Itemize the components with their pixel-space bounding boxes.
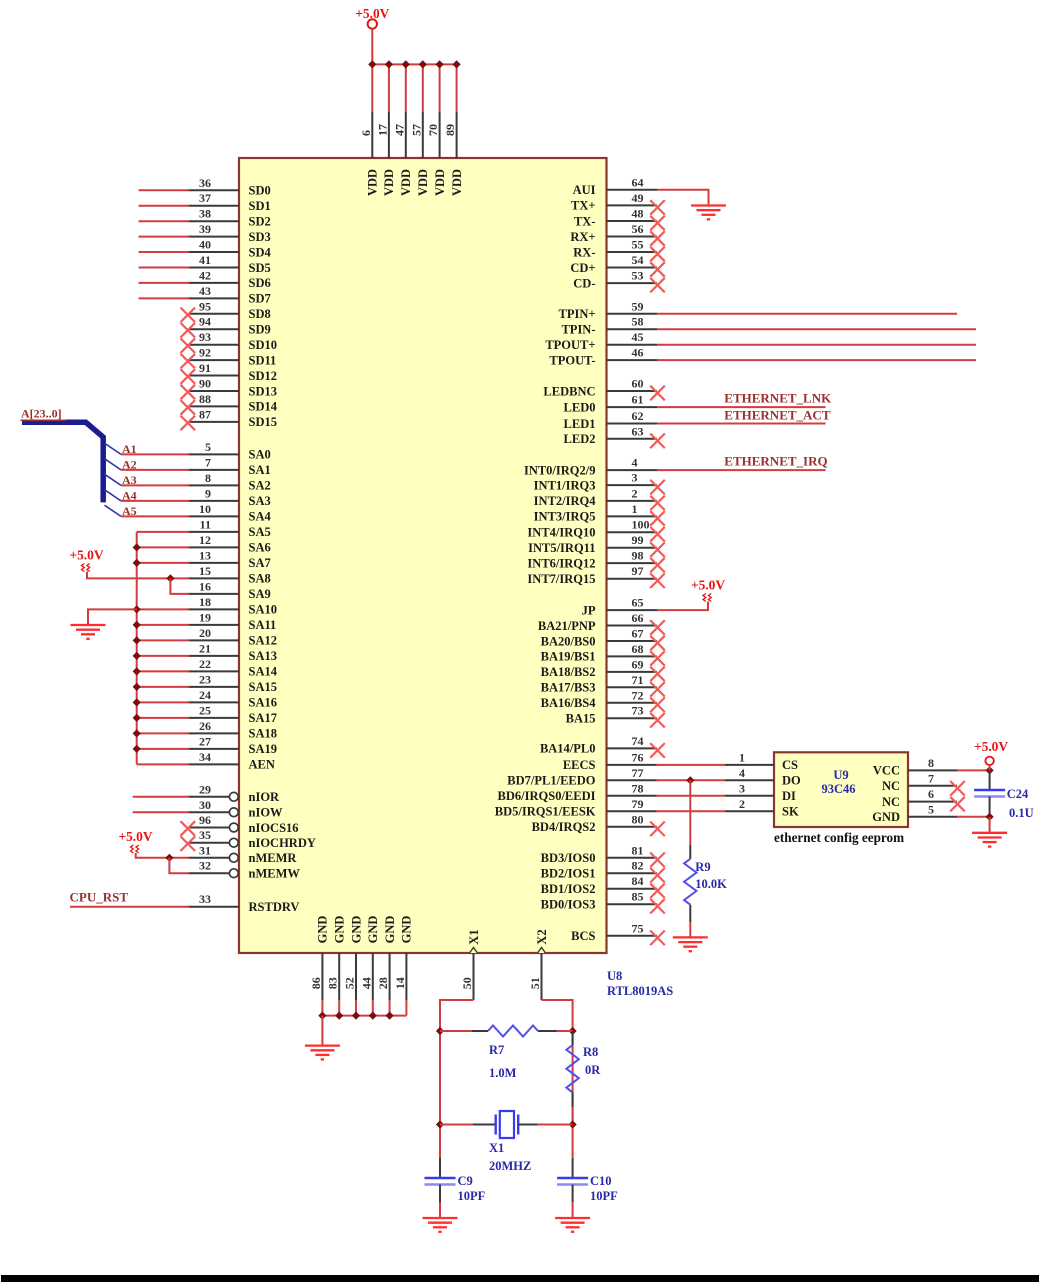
- wire A3 to SA2: [121, 484, 189, 486]
- svg-text:nIOR: nIOR: [249, 790, 281, 804]
- svg-text:BD4/IRQS2: BD4/IRQS2: [532, 820, 596, 834]
- svg-text:TPIN-: TPIN-: [561, 323, 595, 337]
- svg-text:GND: GND: [366, 916, 380, 944]
- pin 59 TPIN+ (right): [607, 313, 658, 315]
- svg-text:BD7/PL1/EEDO: BD7/PL1/EEDO: [507, 774, 595, 788]
- op-amp U8 RTL8019AS main IC body: [239, 158, 607, 953]
- svg-text:17: 17: [375, 124, 389, 136]
- svg-text:BA19/BS1: BA19/BS1: [541, 650, 596, 664]
- svg-text:CD-: CD-: [573, 276, 595, 290]
- pin 95 SD8 (left): [188, 313, 239, 315]
- pin 57 VDD (top): [422, 64, 424, 112]
- svg-text:88: 88: [199, 392, 211, 406]
- svg-text:SA16: SA16: [249, 696, 277, 710]
- U9 pin 2 SK: [725, 810, 774, 812]
- wire SA chain branch: [137, 655, 190, 657]
- svg-text:SA19: SA19: [249, 742, 277, 756]
- junction R9 tap: [686, 776, 694, 784]
- svg-text:89: 89: [443, 124, 457, 136]
- wire SA10 to ground: [88, 609, 137, 625]
- junction: [133, 667, 141, 675]
- pin 58 TPIN- (right): [607, 328, 658, 330]
- wire A4 to SA3: [121, 500, 189, 502]
- wire GND bus to ground: [321, 1016, 323, 1046]
- svg-text:12: 12: [199, 533, 211, 547]
- pin 46 TPOUT- (right): [607, 359, 658, 361]
- svg-text:2: 2: [739, 797, 745, 811]
- svg-text:42: 42: [199, 268, 211, 282]
- svg-text:68: 68: [632, 642, 644, 656]
- junction: [133, 621, 141, 629]
- svg-text:VDD: VDD: [416, 169, 430, 196]
- svg-text:5: 5: [928, 802, 934, 816]
- pin 5 SA0 (left): [188, 453, 239, 455]
- svg-text:23: 23: [199, 672, 211, 686]
- svg-text:nMEMR: nMEMR: [249, 851, 298, 865]
- pin 45 TPOUT+ (right): [607, 344, 658, 346]
- svg-text:ETHERNET_ACT: ETHERNET_ACT: [724, 408, 831, 423]
- svg-text:SD1: SD1: [249, 199, 271, 213]
- pin 7 SA1 (left): [188, 469, 239, 471]
- svg-text:BD2/IOS1: BD2/IOS1: [541, 867, 596, 881]
- pin 47 VDD (top): [405, 64, 407, 112]
- pin 64 AUI (right): [607, 189, 658, 191]
- svg-text:73: 73: [632, 704, 644, 718]
- svg-text:5: 5: [205, 440, 211, 454]
- svg-text:8: 8: [205, 471, 211, 485]
- junction: [133, 714, 141, 722]
- svg-text:36: 36: [199, 176, 211, 190]
- pin 74 BA14/PL0 (right): [607, 747, 658, 749]
- svg-text:nIOCS16: nIOCS16: [249, 821, 299, 835]
- svg-text:29: 29: [199, 782, 211, 796]
- svg-text:82: 82: [632, 859, 644, 873]
- svg-text:INT0/IRQ2/9: INT0/IRQ2/9: [524, 463, 596, 477]
- pin 12 SA6 (left): [188, 546, 239, 548]
- svg-text:SD4: SD4: [249, 245, 272, 259]
- svg-text:90: 90: [199, 377, 211, 391]
- svg-text:SD10: SD10: [249, 338, 277, 352]
- wire C9 to ground: [439, 1202, 441, 1218]
- wire CPU_RST to RSTDRV: [70, 906, 189, 908]
- pin 43 SD7 (left): [188, 297, 239, 299]
- pin 97 INT7/IRQ15 (right): [607, 578, 658, 580]
- svg-text:nIOCHRDY: nIOCHRDY: [249, 836, 316, 850]
- svg-text:75: 75: [632, 921, 644, 935]
- svg-text:SD7: SD7: [249, 292, 271, 306]
- wire LED0: [657, 406, 826, 408]
- svg-text:INT3/IRQ5: INT3/IRQ5: [534, 510, 596, 524]
- svg-text:SA6: SA6: [249, 541, 271, 555]
- wire R7 left stub: [440, 1030, 472, 1032]
- svg-text:DI: DI: [782, 789, 796, 803]
- ground (U9/C24): [972, 832, 1007, 834]
- junction GND/C24: [986, 813, 994, 821]
- pin 91 SD12 (left): [188, 375, 239, 377]
- svg-text:58: 58: [632, 315, 644, 329]
- svg-text:80: 80: [632, 812, 644, 826]
- wire SD5 stub: [139, 267, 190, 269]
- pin 53 CD- (right): [607, 282, 658, 284]
- pin 15 SA8 (left): [188, 577, 239, 579]
- svg-text:BD5/IRQS1/EESK: BD5/IRQS1/EESK: [495, 805, 596, 819]
- svg-text:19: 19: [199, 610, 211, 624]
- pin 38 SD2 (left): [188, 220, 239, 222]
- svg-text:CPU_RST: CPU_RST: [70, 890, 129, 905]
- svg-text:ETHERNET_LNK: ETHERNET_LNK: [724, 391, 832, 406]
- pin 21 SA13 (left): [188, 655, 239, 657]
- svg-text:R7: R7: [489, 1043, 504, 1057]
- svg-text:SD0: SD0: [249, 184, 271, 198]
- svg-text:SD8: SD8: [249, 307, 271, 321]
- pin 94 SD9 (left): [188, 328, 239, 330]
- pin 14 GND (bottom): [405, 953, 407, 1000]
- wire JP to +5V: [657, 602, 708, 611]
- svg-text:SA10: SA10: [249, 603, 277, 617]
- bus A[23..0]: [22, 422, 103, 502]
- svg-text:INT6/IRQ12: INT6/IRQ12: [527, 556, 595, 570]
- pin 20 SA12 (left): [188, 639, 239, 641]
- svg-text:SD3: SD3: [249, 230, 271, 244]
- svg-text:SD2: SD2: [249, 215, 271, 229]
- wire SD1 stub: [139, 205, 190, 207]
- capacitor C24: [989, 770, 991, 790]
- svg-text:VCC: VCC: [873, 764, 900, 778]
- svg-text:30: 30: [199, 798, 211, 812]
- svg-text:6: 6: [359, 130, 373, 136]
- pin 27 SA19 (left): [188, 748, 239, 750]
- wire SA chain branch: [137, 748, 190, 750]
- wire A2 to SA1: [121, 469, 189, 471]
- capacitor C9: [439, 1158, 441, 1178]
- svg-text:RSTDRV: RSTDRV: [249, 900, 300, 914]
- pin 93 SD10 (left): [188, 344, 239, 346]
- wire SD6 stub: [139, 282, 190, 284]
- svg-text:GND: GND: [383, 916, 397, 944]
- svg-text:3: 3: [739, 781, 745, 795]
- svg-text:72: 72: [632, 688, 644, 702]
- wire SA chain branch: [137, 763, 190, 765]
- capacitor C10: [572, 1158, 574, 1178]
- svg-text:7: 7: [928, 771, 934, 785]
- pin 23 SA15 (left): [188, 686, 239, 688]
- svg-text:86: 86: [309, 977, 323, 989]
- pin 55 RX- (right): [607, 251, 658, 253]
- svg-text:35: 35: [199, 828, 211, 842]
- pin 78 BD6/IRQS0/EEDI (right): [607, 795, 658, 797]
- pin 50 X1 (bottom): [473, 953, 475, 1000]
- pin 86 GND (bottom): [321, 953, 323, 1000]
- pin 26 SA18 (left): [188, 732, 239, 734]
- wire SD7 stub: [139, 297, 190, 299]
- pin 80 BD4/IRQS2 (right): [607, 826, 658, 828]
- svg-text:85: 85: [632, 890, 644, 904]
- svg-text:51: 51: [528, 977, 542, 989]
- wire to SA9: [170, 578, 189, 594]
- svg-text:VDD: VDD: [382, 169, 396, 196]
- junction VDD bus: [402, 60, 410, 68]
- pin 48 TX- (right): [607, 220, 658, 222]
- wire SA chain branch: [137, 670, 190, 672]
- svg-text:0R: 0R: [585, 1063, 601, 1077]
- svg-text:44: 44: [359, 977, 373, 989]
- pin 98 INT6/IRQ12 (right): [607, 562, 658, 564]
- pin 89 VDD (top): [456, 64, 458, 112]
- svg-text:SD15: SD15: [249, 415, 277, 429]
- pin 25 SA17 (left): [188, 717, 239, 719]
- svg-text:VDD: VDD: [450, 169, 464, 196]
- pin 96 nIOCS16 (left): [188, 827, 229, 829]
- wire VDD bus horizontal: [372, 63, 456, 65]
- pin 41 SD5 (left): [188, 267, 239, 269]
- svg-text:+5.0V: +5.0V: [69, 548, 103, 563]
- svg-text:21: 21: [199, 641, 211, 655]
- svg-text:10PF: 10PF: [590, 1189, 618, 1203]
- svg-text:99: 99: [632, 533, 644, 547]
- pin 69 BA18/BS2 (right): [607, 671, 658, 673]
- svg-text:LED1: LED1: [564, 417, 596, 431]
- wire R7 right stub: [538, 1030, 557, 1032]
- wire SA chain vertical: [136, 532, 138, 765]
- svg-text:20: 20: [199, 626, 211, 640]
- svg-text:74: 74: [632, 734, 644, 748]
- wire BD5 to U9 SK: [656, 810, 725, 812]
- svg-text:R8: R8: [583, 1045, 598, 1059]
- svg-text:X1: X1: [467, 929, 481, 944]
- svg-text:C9: C9: [458, 1174, 473, 1188]
- pin 90 SD13 (left): [188, 390, 239, 392]
- svg-text:78: 78: [632, 781, 644, 795]
- junction VDD bus: [453, 60, 461, 68]
- pin 92 SD11 (left): [188, 359, 239, 361]
- svg-text:ETHERNET_IRQ: ETHERNET_IRQ: [724, 454, 827, 469]
- svg-text:BA14/PL0: BA14/PL0: [540, 742, 596, 756]
- pin 79 BD5/IRQS1/EESK (right): [607, 810, 658, 812]
- wire TPOUT+: [657, 344, 976, 346]
- wire to nMEMW: [169, 858, 189, 873]
- svg-text:53: 53: [632, 269, 644, 283]
- svg-text:VDD: VDD: [366, 169, 380, 196]
- pin 67 BA20/BS0 (right): [607, 640, 658, 642]
- sheet border bar: [1, 1275, 1039, 1282]
- junction GND bus: [369, 1012, 377, 1020]
- wire R8 bottom stub: [572, 1092, 574, 1107]
- pin 77 BD7/PL1/EEDO (right): [607, 779, 658, 781]
- resistor R9: [684, 859, 696, 905]
- svg-text:93C46: 93C46: [821, 782, 855, 796]
- svg-text:2: 2: [632, 486, 638, 500]
- svg-text:RX-: RX-: [573, 245, 595, 259]
- svg-text:BD6/IRQS0/EEDI: BD6/IRQS0/EEDI: [498, 789, 596, 803]
- svg-text:+5.0V: +5.0V: [691, 578, 725, 593]
- wire C10 to ground: [572, 1202, 574, 1218]
- svg-text:BCS: BCS: [571, 929, 595, 943]
- junction: [133, 543, 141, 551]
- wire INT0: [657, 469, 826, 471]
- svg-text:3: 3: [632, 471, 638, 485]
- wire TPOUT-: [657, 359, 976, 361]
- pin 10 SA4 (left): [188, 515, 239, 517]
- pin 2 INT2/IRQ4 (right): [607, 500, 658, 502]
- svg-text:52: 52: [343, 977, 357, 989]
- junction: [133, 652, 141, 660]
- junction VDD bus: [436, 60, 444, 68]
- pin 19 SA11 (left): [188, 624, 239, 626]
- wire U9 VCC to +5V: [957, 769, 990, 771]
- svg-text:24: 24: [199, 688, 211, 702]
- svg-text:AUI: AUI: [573, 183, 596, 197]
- svg-text:100: 100: [632, 518, 650, 532]
- U9 pin 1 CS: [725, 764, 774, 766]
- svg-text:TPIN+: TPIN+: [559, 307, 596, 321]
- svg-text:76: 76: [632, 750, 644, 764]
- wire SA chain branch: [137, 562, 190, 564]
- wire TPIN-: [657, 328, 976, 330]
- svg-text:54: 54: [632, 253, 644, 267]
- wire BD6 to U9 DI: [656, 795, 725, 797]
- svg-text:nMEMW: nMEMW: [249, 867, 301, 881]
- wire +5V circle to VCC: [989, 765, 991, 770]
- svg-text:6: 6: [928, 787, 934, 801]
- wire +5V to VDD bus: [371, 29, 373, 65]
- pin 72 BA16/BS4 (right): [607, 702, 658, 704]
- wire SD3 stub: [139, 236, 190, 238]
- wire SA chain branch: [137, 624, 190, 626]
- junction R7 left: [436, 1027, 444, 1035]
- wire nIOR stub: [133, 796, 190, 798]
- svg-text:TX-: TX-: [574, 214, 596, 228]
- svg-text:SK: SK: [782, 805, 799, 819]
- wire SA chain branch: [137, 531, 190, 533]
- pin 62 LED1 (right): [607, 423, 658, 425]
- bus entry A4: [105, 490, 122, 501]
- junction R7 right: [569, 1027, 577, 1035]
- pin 99 INT5/IRQ11 (right): [607, 547, 658, 549]
- U9 pin 8 VCC: [908, 769, 957, 771]
- svg-text:BD0/IOS3: BD0/IOS3: [541, 898, 596, 912]
- svg-text:SA18: SA18: [249, 727, 277, 741]
- pin 87 SD15 (left): [188, 421, 239, 423]
- svg-text:GND: GND: [400, 916, 414, 944]
- svg-text:EECS: EECS: [563, 758, 596, 772]
- svg-text:79: 79: [632, 797, 644, 811]
- svg-text:SA17: SA17: [249, 711, 277, 725]
- junction: [133, 559, 141, 567]
- svg-text:87: 87: [199, 407, 211, 421]
- svg-text:SA9: SA9: [249, 587, 271, 601]
- svg-text:NC: NC: [882, 779, 900, 793]
- U9 pin 7 NC: [908, 785, 957, 787]
- pin 81 BD3/IOS0 (right): [607, 857, 658, 859]
- wire SA chain branch: [137, 546, 190, 548]
- junction: [133, 729, 141, 737]
- svg-text:TPOUT+: TPOUT+: [545, 338, 595, 352]
- wire U9 GND: [957, 816, 990, 818]
- svg-text:0.1U: 0.1U: [1009, 806, 1034, 820]
- svg-text:BA17/BS3: BA17/BS3: [541, 681, 596, 695]
- svg-text:U9: U9: [833, 768, 848, 782]
- svg-text:10: 10: [199, 502, 211, 516]
- pin 3 INT1/IRQ3 (right): [607, 484, 658, 486]
- pin 66 BA21/PNP (right): [607, 625, 658, 627]
- svg-text:JP: JP: [582, 603, 596, 617]
- wire R9 bottom: [689, 905, 691, 922]
- svg-text:49: 49: [632, 191, 644, 205]
- wire LED1: [657, 423, 826, 425]
- pin 100 INT4/IRQ10 (right): [607, 531, 658, 533]
- wire BD7 to U9 DO: [656, 779, 725, 781]
- pin 16 SA9 (left): [188, 593, 239, 595]
- svg-text:98: 98: [632, 549, 644, 563]
- svg-text:83: 83: [326, 977, 340, 989]
- pin 60 LEDBNC (right): [607, 390, 658, 392]
- svg-text:C10: C10: [590, 1174, 612, 1188]
- bus entry A5: [105, 505, 122, 516]
- wire crystal left stub: [440, 1124, 473, 1126]
- wire AUI to ground: [657, 190, 709, 206]
- svg-text:SD6: SD6: [249, 276, 271, 290]
- op-amp U9 93C46 eeprom body: [774, 752, 908, 827]
- ground (AUI): [691, 204, 726, 206]
- svg-text:SA7: SA7: [249, 556, 271, 570]
- pin 83 GND (bottom): [338, 953, 340, 1000]
- svg-text:CD+: CD+: [570, 261, 595, 275]
- svg-text:+5.0V: +5.0V: [974, 739, 1008, 754]
- svg-text:97: 97: [632, 564, 644, 578]
- ground (R9): [673, 936, 708, 938]
- svg-text:BD1/IOS2: BD1/IOS2: [541, 882, 596, 896]
- svg-text:63: 63: [632, 424, 644, 438]
- svg-text:8: 8: [928, 756, 934, 770]
- svg-text:SA15: SA15: [249, 680, 277, 694]
- svg-text:BD3/IOS0: BD3/IOS0: [541, 851, 596, 865]
- pin 75 BCS (right): [607, 935, 658, 937]
- junction VDD bus: [368, 60, 376, 68]
- ground (GND pins): [305, 1044, 340, 1046]
- bus entry A3: [105, 474, 122, 485]
- svg-text:45: 45: [632, 330, 644, 344]
- svg-text:40: 40: [199, 238, 211, 252]
- svg-text:SA5: SA5: [249, 525, 271, 539]
- wire R9 top: [689, 780, 691, 845]
- svg-text:SD11: SD11: [249, 353, 277, 367]
- svg-text:+5.0V: +5.0V: [118, 829, 152, 844]
- pin 13 SA7 (left): [188, 562, 239, 564]
- svg-text:A[23..0]: A[23..0]: [21, 407, 62, 421]
- pin 29 nIOR (left): [188, 796, 229, 798]
- svg-text:1: 1: [739, 750, 745, 764]
- svg-text:DO: DO: [782, 774, 801, 788]
- pin 37 SD1 (left): [188, 205, 239, 207]
- svg-text:81: 81: [632, 843, 644, 857]
- svg-text:84: 84: [632, 874, 644, 888]
- pin 42 SD6 (left): [188, 282, 239, 284]
- pin 11 SA5 (left): [188, 531, 239, 533]
- pin 73 BA15 (right): [607, 717, 658, 719]
- ground (SA chain): [71, 624, 106, 626]
- junction crystal right: [569, 1120, 577, 1128]
- pin 28 GND (bottom): [389, 953, 391, 1000]
- resistor R7: [488, 1026, 538, 1037]
- wire SD2 stub: [139, 220, 190, 222]
- svg-text:46: 46: [632, 346, 644, 360]
- wire to ground (U9): [989, 817, 991, 833]
- svg-text:11: 11: [200, 517, 211, 531]
- svg-text:SA11: SA11: [249, 618, 277, 632]
- svg-text:31: 31: [199, 843, 211, 857]
- svg-text:SD5: SD5: [249, 261, 271, 275]
- pin 9 SA3 (left): [188, 500, 239, 502]
